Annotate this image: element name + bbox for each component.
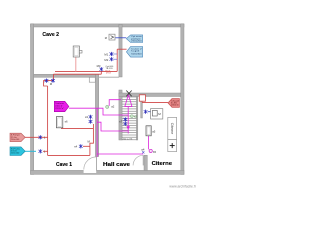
svg-text:200x100: 200x100 [11, 153, 20, 155]
svg-text:Cave 2: Cave 2 [42, 32, 59, 38]
svg-text:M1: M1 [104, 52, 108, 56]
svg-text:Cpt: Cpt [131, 50, 140, 53]
svg-text:250x200: 250x200 [131, 40, 143, 42]
svg-text:b5: b5 [153, 150, 157, 154]
svg-text:M2: M2 [104, 58, 108, 62]
svg-text:500x300: 500x300 [131, 53, 143, 55]
svg-text:s3: s3 [85, 115, 88, 119]
svg-text:s7: s7 [119, 119, 122, 123]
svg-text:Ø 63: Ø 63 [106, 73, 112, 75]
svg-text:Hall cave: Hall cave [103, 162, 131, 168]
svg-text:Citerne: Citerne [170, 123, 174, 135]
svg-text:s4: s4 [74, 145, 77, 149]
svg-text:200x100: 200x100 [11, 139, 20, 141]
svg-text:s2: s2 [134, 115, 137, 119]
svg-text:200mm: 200mm [171, 105, 179, 107]
svg-text:a2: a2 [111, 105, 115, 109]
svg-text:260 x 278: 260 x 278 [123, 138, 133, 140]
svg-text:a5: a5 [152, 130, 156, 134]
svg-text:a4: a4 [141, 148, 145, 152]
svg-text:220 V: 220 V [55, 108, 64, 110]
svg-text:Cave 1: Cave 1 [56, 162, 73, 168]
svg-text:www.archifacile.fr: www.archifacile.fr [169, 184, 196, 188]
svg-text:s6: s6 [65, 120, 68, 124]
svg-text:Citerne: Citerne [152, 161, 173, 167]
svg-text:M: M [105, 36, 107, 40]
svg-text:M3: M3 [97, 64, 101, 68]
